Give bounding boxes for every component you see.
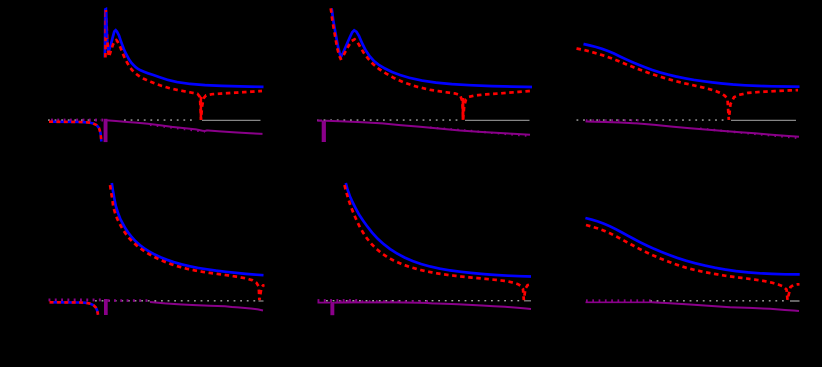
s6 red dashed main decay with dip to zero at x≈788.8 [586, 225, 800, 300]
s6 purple dashed near-zero segment [586, 301, 653, 303]
s5 purple resonance bar [330, 302, 334, 315]
s3 white dotted zero line [577, 119, 727, 121]
s1 blue flat negative segment left [49, 122, 101, 142]
s6 white dotted zero line [650, 300, 788, 302]
s5 purple up-tick dashes along zero [318, 299, 361, 303]
s1 blue main curve: spike, second peak, decay [105, 9, 264, 87]
s1 red dashed main curve with dip to zero at x≈201 [105, 10, 262, 120]
s1 purple resonance bar [104, 119, 108, 142]
s4 purple post-bar dashed hug [108, 299, 150, 302]
s2 purple tick overlay on descending line [430, 128, 530, 136]
s4 purple dashed near-zero segment [49, 298, 104, 301]
s4 purple resonance bar [104, 299, 108, 315]
s4 red dashed main decay with dip to zero at right edge [110, 183, 265, 300]
s3 blue main curve [584, 44, 800, 87]
s2 red dashed main curve with dip to zero at x≈463 [331, 8, 531, 120]
s1 white dotted zero line [48, 119, 196, 121]
s2 gray solid zero segment [465, 119, 530, 121]
s4 blue main decay curve [112, 183, 264, 275]
s5 gray nub after dip [524, 300, 531, 302]
s2 purple near-zero stub left of bar [317, 119, 322, 121]
s3 gray solid zero segment [731, 119, 796, 121]
s4 white dotted zero line [95, 300, 258, 302]
s3 purple up-ticks near start [586, 119, 640, 121]
s1 gray solid zero segment [202, 119, 261, 121]
s2 white dotted zero line [317, 119, 461, 121]
s6 purple up-ticks [586, 299, 652, 302]
s5 purple descending line [334, 302, 531, 309]
s1 purple descending line [108, 120, 263, 133]
s2 purple resonance bar [322, 120, 326, 142]
s4 gray nub after dip [259, 300, 264, 302]
s1 red solid dip reinforcement [200, 97, 203, 120]
s5 blue main decay curve [346, 183, 531, 277]
s6 gray nub after dip [790, 300, 800, 302]
s4 purple descending line [150, 302, 263, 311]
s2 red solid dip reinforcement [462, 98, 465, 120]
s5 red dashed main decay with dip to zero at x≈523.7 [345, 185, 532, 300]
s4 blue flat negative segment left [50, 302, 99, 315]
s2 blue main curve [332, 8, 532, 87]
s5 white dotted zero line [326, 300, 521, 302]
s5 purple tick dashes along flat part [340, 300, 430, 302]
s3 red dashed main curve with dip to zero at x≈728.8 [577, 49, 799, 120]
s1 purple tick overlay on descending line [150, 125, 205, 132]
s3 purple tick overlay on descending line [700, 129, 799, 138]
s1 purple dashed near-zero segment [51, 119, 103, 122]
s5 purple base line left [318, 302, 331, 304]
s4 red dashed flat negative segment left [50, 302, 99, 315]
s6 blue main decay curve [585, 218, 799, 274]
s6 purple descending line [652, 302, 799, 311]
s2 purple descending line [326, 121, 530, 135]
s3 purple descending line [586, 121, 800, 136]
s1 red dashed flat negative segment left [49, 122, 101, 142]
s1 blue spike filler [105, 12, 107, 38]
